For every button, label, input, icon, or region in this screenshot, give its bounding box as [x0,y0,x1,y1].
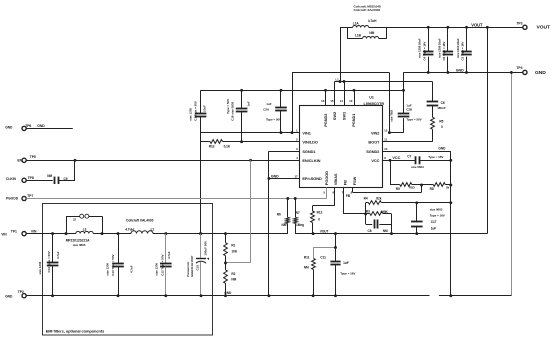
wire VOUT rail lower [295,233,487,235]
svg-text:0: 0 [318,218,320,222]
resistor R13 in VIN/LDO line [201,141,210,143]
svg-text:J2: J2 [73,218,77,222]
wire VIN bridge over U1 [292,73,294,133]
svg-text:GND: GND [37,124,45,128]
svg-text:size 1206: size 1206 [155,263,159,276]
svg-text:NM: NM [304,266,309,270]
svg-text:4.7uF: 4.7uF [56,251,60,259]
svg-text:VOUT: VOUT [471,22,483,27]
svg-text:1uF: 1uF [343,261,349,265]
svg-text:10: 10 [384,147,388,151]
svg-text:C14 Type = 50V: C14 Type = 50V [47,251,51,272]
svg-text:EMI filters, optional componen: EMI filters, optional components [46,329,104,334]
svg-text:L5965CQTR: L5965CQTR [364,102,385,106]
svg-text:14: 14 [340,99,344,103]
capacitor C15 electrolytic [200,234,202,258]
wire FSW pin 8 [352,187,354,192]
svg-text:17: 17 [294,174,298,178]
svg-text:VOUT: VOUT [537,25,550,31]
wire SGND1 pin 3 to GND drop [269,151,300,153]
svg-text:size 1206 10uF: size 1206 10uF [418,38,422,58]
svg-text:180nF: 180nF [437,106,446,110]
svg-text:1Meg: 1Meg [296,223,304,227]
svg-text:C1 Type = 50V: C1 Type = 50V [194,101,198,121]
svg-text:13: 13 [349,99,353,103]
svg-text:C2A: C2A [263,108,270,112]
svg-text:L1: L1 [336,77,340,81]
bottom GND rail right segment [439,295,512,297]
svg-text:C3 Type = 16V: C3 Type = 16V [461,42,465,61]
svg-text:1uF: 1uF [431,226,437,230]
wire VCC pin 9 [382,160,415,162]
jumper J2 [66,216,68,233]
resistor R12 [334,187,336,205]
wire BOOT pin 11 [382,141,432,143]
svg-text:VBIAS: VBIAS [333,173,338,185]
svg-text:EEEFK1H101P: EEEFK1H101P [190,256,194,277]
svg-text:R1: R1 [231,244,235,248]
svg-text:size 1206 10uF: size 1206 10uF [437,38,441,58]
svg-text:C6: C6 [441,101,445,105]
svg-text:VOUT: VOUT [320,229,329,233]
wire EN divider tap grey [250,160,252,263]
svg-text:L3: L3 [83,227,87,231]
svg-text:0,1K: 0,1K [224,144,231,148]
capacitor C2A [280,90,282,107]
capacitor C7 [415,156,417,164]
svg-text:C2B: C2B [406,108,413,112]
svg-text:VIN: VIN [31,230,37,234]
wire EN to pin 4 [26,160,299,162]
wire VIN rail [26,233,76,235]
svg-text:PGOOD: PGOOD [324,171,329,185]
svg-text:L1B: L1B [355,34,362,38]
svg-text:C4 Type = 16V: C4 Type = 16V [422,42,426,61]
ferrite bead L3 [76,231,93,233]
inductor L2 [131,231,153,234]
wire SW node feed to L1A [340,27,342,81]
svg-text:SW2: SW2 [332,111,337,120]
capacitor C4 [428,27,430,51]
svg-text:size TBD: size TBD [390,110,394,122]
svg-text:C9: C9 [64,177,68,181]
resistor R9 [390,160,392,185]
svg-text:Type = 16V: Type = 16V [428,155,443,159]
svg-text:R2: R2 [231,272,235,276]
svg-text:10K: 10K [231,249,237,253]
svg-text:GND: GND [438,147,446,151]
svg-text:4.7uF: 4.7uF [130,265,134,273]
svg-text:size 0805: size 0805 [73,243,86,247]
svg-text:VCC: VCC [371,158,379,163]
svg-text:TBD: TBD [409,185,416,189]
svg-text:NM: NM [47,174,52,178]
capacitor C16 [241,90,243,108]
svg-text:R12: R12 [317,210,323,214]
wire GND drop grey right side [511,72,513,295]
svg-text:4.7uH: 4.7uH [368,19,377,23]
svg-text:10uF: 10uF [203,105,207,112]
svg-text:VCC: VCC [392,156,400,160]
capacitor C6 boot [432,82,434,102]
svg-text:R3: R3 [366,210,370,214]
svg-text:C15: C15 [195,265,199,271]
wire EP pin 17 GND [269,178,300,180]
svg-text:TP1: TP1 [11,229,17,233]
svg-text:C5 Type = 16V: C5 Type = 16V [442,42,446,61]
svg-text:Type = 16V: Type = 16V [340,271,355,275]
wire SW node to boot cap [335,81,433,83]
svg-text:15: 15 [330,99,334,103]
resistor R5 boot [431,117,435,129]
svg-text:L1A: L1A [353,22,360,26]
svg-text:12: 12 [384,129,388,133]
svg-text:TP7: TP7 [27,194,33,198]
wire PGOOD net grey [26,198,326,200]
svg-text:C12 Type = 50V: C12 Type = 50V [161,254,165,275]
wire GND vertical right [450,151,452,296]
svg-text:TP4: TP4 [516,66,522,70]
capacitor C13 [118,234,120,264]
svg-text:TP3: TP3 [516,21,522,25]
capacitor C14 [52,234,54,263]
svg-text:GND: GND [535,70,546,76]
svg-text:size 1206: size 1206 [38,261,42,274]
resistor R3 [366,213,370,215]
wire SGND2 pin 10 to GND [382,151,450,153]
wire VOUT drop to lower VOUT rail [487,27,489,233]
svg-text:1uF: 1uF [266,102,271,106]
svg-text:NM: NM [282,223,287,227]
svg-text:size 0603: size 0603 [411,165,424,169]
inductor L1B (NM) parallel branch [347,27,349,39]
svg-text:C16 size 0805: C16 size 0805 [230,102,234,121]
svg-text:1uF: 1uF [247,101,251,106]
svg-text:size 1206: size 1206 [188,108,192,121]
svg-text:L2: L2 [151,227,155,231]
svg-text:16: 16 [321,99,325,103]
svg-text:BOOT: BOOT [368,139,380,144]
wire FB pin 7 [343,187,345,214]
svg-text:VIN1: VIN1 [302,130,311,135]
svg-text:R13: R13 [209,144,215,148]
svg-text:NM: NM [369,31,374,35]
svg-text:4.7uF: 4.7uF [167,251,171,259]
svg-text:NM: NM [231,277,236,281]
svg-text:PGOOD: PGOOD [6,197,19,201]
svg-text:VIN: VIN [1,232,7,236]
svg-text:4.7uH: 4.7uH [125,227,134,231]
capacitor C5 [447,27,449,51]
svg-text:C17: C17 [431,220,437,224]
svg-text:GND: GND [5,125,13,129]
capacitor C9 NM clkin coupling [26,180,53,182]
capacitor C17 [416,203,418,222]
svg-text:SGND2: SGND2 [366,149,380,154]
svg-text:FB: FB [343,180,348,185]
svg-text:U1: U1 [369,95,374,99]
resistor R7 1Meg [295,199,297,218]
svg-text:R5: R5 [439,119,443,123]
svg-text:SW1: SW1 [342,111,347,120]
svg-text:C8: C8 [368,229,372,233]
svg-text:GND: GND [5,295,13,299]
resistor R11 NM [313,247,335,249]
svg-text:R11: R11 [304,256,310,260]
resistor R4 [366,202,369,204]
svg-text:GND: GND [456,68,464,72]
resistor R8 [433,183,445,187]
svg-text:PGND2: PGND2 [323,113,328,127]
inductor L1A [340,27,353,29]
capacitor C1 [200,90,202,113]
svg-text:Type = 16V: Type = 16V [430,213,445,217]
svg-text:C13 Type = 50V: C13 Type = 50V [111,254,115,275]
svg-text:CLKIN: CLKIN [6,177,16,181]
capacitor C3 22uF [466,27,468,51]
svg-text:490K: 490K [380,210,388,214]
svg-text:SGND1: SGND1 [302,149,316,154]
capacitor C12 grey leads [165,234,167,264]
svg-text:MPZ2012S221A: MPZ2012S221A [66,239,90,243]
resistor R6 NM [287,199,289,218]
svg-text:0k: 0k [446,186,450,190]
svg-text:FSW: FSW [352,176,357,185]
svg-text:R7: R7 [296,211,300,215]
svg-text:VIN/LDO: VIN/LDO [302,139,317,144]
svg-text:Type = 50V: Type = 50V [226,99,230,114]
svg-text:size 1206: size 1206 [106,263,110,276]
svg-text:R4: R4 [364,197,368,201]
capacitor C2B [403,72,405,113]
svg-text:Type = 50V: Type = 50V [407,117,422,121]
svg-text:R6: R6 [277,213,281,217]
svg-text:C7: C7 [407,155,411,159]
svg-text:C11: C11 [320,256,326,260]
svg-text:R8: R8 [430,187,434,191]
wire R4 to GND net [381,202,451,204]
capacitor C11 [335,234,337,262]
PGND rail [201,90,404,92]
bottom GND rail left segment [26,295,429,297]
svg-text:TP6: TP6 [25,124,31,128]
GND top rail [404,72,523,74]
svg-text:TP5: TP5 [30,155,36,159]
svg-text:GND: GND [271,174,279,178]
wire VIN1 line [201,132,300,134]
resistor R1 [225,234,227,243]
svg-text:R9: R9 [396,187,400,191]
svg-text:size 1210 22uF: size 1210 22uF [456,38,460,58]
EMI filter box [43,204,213,336]
svg-text:NM: NM [383,229,388,233]
svg-text:Coilcraft XAL4030: Coilcraft XAL4030 [126,219,154,223]
U1 top pin stubs PGND2 SW2 SW1 PGND1 [325,90,327,106]
svg-text:82k: 82k [376,197,381,201]
svg-text:VIN2: VIN2 [371,130,380,135]
svg-text:EP/=SGND: EP/=SGND [302,176,322,181]
svg-text:PGND1: PGND1 [351,113,356,127]
svg-text:size 0603: size 0603 [430,208,443,212]
svg-text:Type = 50V: Type = 50V [266,117,281,121]
resistor R2 NM [224,270,228,283]
svg-text:TP8: TP8 [28,176,34,180]
svg-text:0: 0 [441,125,443,129]
svg-text:Coilcraft: XAL5030: Coilcraft: XAL5030 [354,8,381,12]
svg-text:100uF 50V: 100uF 50V [203,240,207,256]
capacitor C8 NM [366,224,373,226]
node FB divider left [365,203,367,224]
svg-text:EN/CLKIN: EN/CLKIN [302,158,320,163]
